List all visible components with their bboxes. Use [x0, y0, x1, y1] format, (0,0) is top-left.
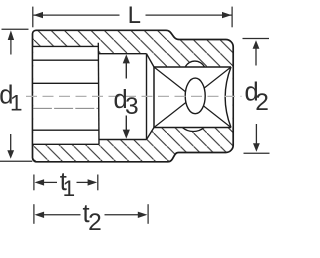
svg-text:2: 2 — [88, 209, 102, 236]
svg-text:1: 1 — [10, 91, 23, 116]
hex far corner line lower — [33, 129, 99, 131]
d3 bore end face — [146, 54, 148, 140]
dimension L extension tick left — [32, 7, 34, 28]
dimension L line left segment — [33, 14, 119, 16]
dimension d1 up arrow — [10, 38, 12, 55]
square drive left edge — [153, 67, 155, 128]
ball hole top notch (white) — [185, 61, 204, 67]
ball hole bottom notch (white) — [182, 128, 204, 132]
dimension t2 right tick — [147, 204, 149, 224]
cone top slant — [147, 54, 155, 67]
svg-text:2: 2 — [255, 89, 269, 116]
ball hole bottom arc — [182, 128, 204, 132]
dimension L line right segment — [146, 14, 232, 16]
dimension d1 top extension line — [2, 28, 29, 30]
dimension d1 down arrow — [10, 134, 12, 152]
dimension t1 right tick — [97, 175, 99, 191]
dimension L extension tick right — [231, 7, 233, 28]
dimension t1 right arrow — [77, 181, 90, 183]
square drive bottom edge — [154, 127, 231, 129]
svg-text:L: L — [128, 2, 141, 29]
centerline — [26, 95, 242, 97]
square drive diagonal A — [154, 67, 231, 128]
square drive diagonal B — [154, 67, 231, 128]
dimension d2 bottom extension line — [244, 152, 270, 154]
cross hole ellipse — [185, 78, 205, 114]
cone transition cavity (white) — [147, 54, 155, 140]
svg-text:1: 1 — [63, 176, 76, 201]
dimension t2 left arrow — [42, 214, 81, 216]
cone bottom slant — [147, 128, 155, 140]
dimension d3 down arrow — [125, 116, 127, 134]
dimension d3 up arrow — [125, 59, 127, 79]
hex far corner line upper — [33, 59, 99, 61]
d3 bore top line — [99, 53, 147, 55]
hex opening cavity (white) — [33, 46, 99, 144]
hex opening bottom cut edge — [33, 143, 99, 145]
dimension t1 left tick — [33, 175, 35, 191]
dimension d2 up arrow — [255, 48, 257, 66]
hex inner line lower — [33, 107, 99, 109]
d3 bore cavity (white) — [99, 54, 147, 140]
d3 bore bottom line — [99, 139, 147, 141]
square drive top edge — [154, 66, 231, 68]
dimension L left arrowhead — [33, 12, 43, 18]
dimension t2 left tick — [33, 204, 35, 224]
hex inner line upper — [33, 82, 99, 84]
dimension d2 top extension line — [243, 38, 270, 40]
square drive cavity (white) — [154, 67, 232, 128]
square drive far concave face — [225, 67, 231, 128]
dimension d1 bottom extension line — [0, 160, 32, 162]
dimension t1 left arrow — [42, 181, 57, 183]
svg-text:3: 3 — [125, 93, 139, 120]
socket body outline (cross-section, hatched) — [33, 30, 234, 162]
ball hole top arc — [185, 61, 204, 67]
hex opening end wall — [97, 43, 100, 145]
hex opening top cut edge — [33, 45, 99, 47]
dimension d2 down arrow — [255, 124, 257, 144]
dimension L right arrowhead — [222, 12, 232, 18]
dimension t2 right arrow — [105, 214, 140, 216]
